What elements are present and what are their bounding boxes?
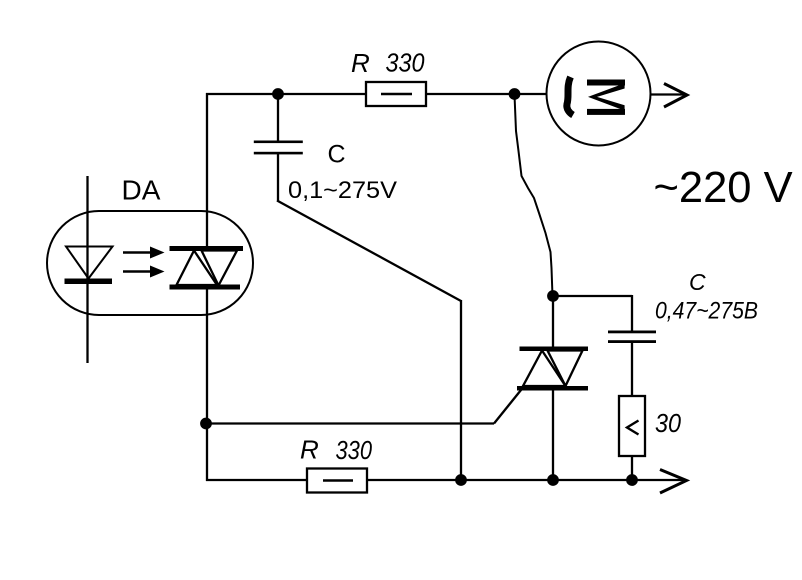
wire left vertical lower (x=207 optotriac to bottom wire) — [206, 288, 208, 481]
wire vertical x=461 to bottom wire — [460, 300, 462, 481]
wire C1 bottom lead — [277, 154, 279, 201]
wire gate diagonal to triac — [494, 388, 523, 424]
motor tilde (rotated) — [567, 77, 573, 115]
motor letter M rotated top bar — [587, 80, 625, 86]
capacitor C1 bottom plate — [254, 152, 303, 155]
svg-text:330: 330 — [336, 435, 373, 465]
wire LED vertical lead — [86, 176, 88, 363]
svg-text:R: R — [300, 435, 319, 465]
wire bottom horizontal left of R2 — [206, 479, 308, 481]
capacitor C2 bottom plate — [608, 340, 656, 343]
motor M1 circle — [547, 42, 651, 146]
terminal arrow top — [664, 84, 687, 108]
wire bottom horizontal right of R2 — [366, 479, 686, 481]
capacitor C2 top plate — [608, 331, 656, 334]
svg-text:0,1~275V: 0,1~275V — [288, 177, 397, 204]
svg-text:R: R — [351, 48, 370, 78]
svg-text:0,47~275B: 0,47~275B — [655, 298, 758, 325]
node R3-bottom junction dot — [626, 474, 638, 486]
resistor R2 inner dash — [323, 479, 353, 481]
optocoupler DA body — [47, 211, 253, 315]
optotriac bottom bar — [170, 285, 241, 290]
wire horizontal triac node to C2 — [553, 295, 632, 297]
triac VS1 bottom bar — [517, 386, 588, 391]
wire diagonal C1 to node B — [277, 201, 461, 302]
node triac-top junction dot — [547, 290, 559, 302]
node B junction dot — [455, 474, 467, 486]
wire C2 bottom lead to R3 — [631, 343, 633, 398]
wire top horizontal from node A to motor — [206, 93, 547, 95]
motor letter M rotated bottom bar — [587, 109, 625, 115]
optotriac down triangle — [202, 251, 238, 286]
LED cathode bar — [65, 279, 113, 285]
wire motor right lead — [650, 93, 686, 95]
svg-text:~220 V: ~220 V — [654, 164, 793, 212]
terminal arrow bottom — [660, 470, 687, 494]
triac VS1 down triangle — [548, 351, 583, 387]
resistor R1 box — [366, 82, 426, 106]
node motor-left junction dot — [509, 88, 521, 100]
optotriac up triangle — [177, 251, 218, 286]
svg-text:DA: DA — [122, 175, 161, 206]
optotriac top bar — [170, 246, 244, 251]
wire gate horizontal — [206, 422, 494, 424]
wire left vertical upper (x=207 from top wire to optotriac) — [206, 93, 208, 247]
capacitor C1 top plate — [254, 141, 303, 144]
wire R3 bottom lead — [631, 456, 633, 480]
wire C1 top lead — [277, 94, 279, 141]
svg-text:30: 30 — [655, 408, 681, 438]
node A junction dot — [272, 88, 284, 100]
resistor R3 box vertical — [619, 396, 645, 456]
wire triac top lead — [552, 295, 554, 347]
triac VS1 up triangle — [523, 351, 566, 387]
node triac-bottom junction dot — [547, 474, 559, 486]
wire C2 top lead — [631, 295, 633, 331]
node gate junction dot — [200, 418, 212, 430]
resistor R3 inner mark — [627, 421, 639, 435]
opto arrow 1 — [123, 247, 165, 259]
opto arrow 2 — [123, 266, 165, 278]
svg-text:C: C — [689, 269, 706, 295]
svg-text:330: 330 — [386, 48, 425, 78]
wire squiggle from top node to triac node — [515, 95, 553, 296]
wire triac bottom lead — [552, 390, 554, 481]
triac VS1 top bar — [520, 347, 589, 352]
resistor R2 box — [307, 469, 367, 493]
motor letter M rotated chevron — [588, 83, 625, 110]
svg-text:C: C — [328, 141, 346, 169]
resistor R1 inner dash — [381, 93, 412, 95]
LED diode triangle — [66, 247, 113, 279]
